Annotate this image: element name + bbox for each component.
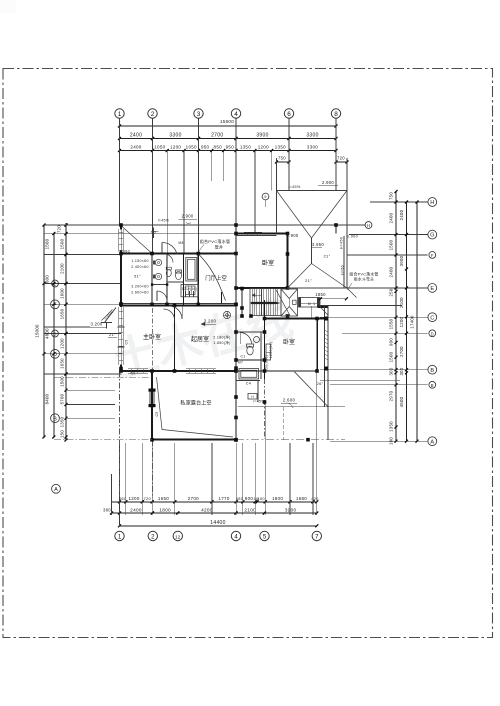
svg-text:1350: 1350 [275, 144, 286, 149]
svg-text:2100: 2100 [244, 507, 256, 512]
svg-text:B: B [431, 383, 434, 388]
svg-text:2: 2 [151, 111, 155, 118]
svg-text:1650: 1650 [158, 496, 169, 501]
svg-text:2.600: 2.600 [283, 398, 296, 403]
svg-text:i=45%: i=45% [288, 185, 300, 189]
svg-text:2100: 2100 [60, 263, 65, 274]
svg-text:3300: 3300 [306, 132, 318, 138]
svg-text:750: 750 [389, 192, 394, 200]
svg-text:3300: 3300 [307, 144, 318, 149]
svg-text:1600: 1600 [60, 288, 65, 299]
svg-text:C4: C4 [246, 382, 251, 386]
svg-text:2400: 2400 [130, 144, 141, 149]
svg-text:4200: 4200 [201, 507, 213, 512]
svg-text:1800: 1800 [159, 507, 171, 512]
svg-text:720: 720 [57, 225, 62, 233]
svg-text:2700: 2700 [211, 132, 223, 138]
svg-text:3300: 3300 [169, 132, 181, 138]
svg-text:720: 720 [143, 496, 151, 501]
svg-text:1500: 1500 [389, 239, 394, 250]
svg-text:组合PVC落水管: 组合PVC落水管 [200, 238, 231, 244]
svg-text:卧室: 卧室 [262, 259, 274, 267]
svg-text:750: 750 [278, 156, 286, 161]
svg-text:21°: 21° [305, 278, 312, 283]
svg-text:1: 1 [118, 111, 122, 118]
svg-text:3900: 3900 [285, 507, 297, 512]
svg-text:1050: 1050 [186, 144, 197, 149]
svg-text:起居室: 起居室 [191, 335, 209, 343]
svg-text:900: 900 [245, 496, 254, 501]
svg-text:7: 7 [315, 534, 319, 540]
svg-text:i=45%: i=45% [253, 399, 264, 403]
svg-text:F: F [53, 302, 57, 308]
svg-text:2400: 2400 [130, 507, 142, 512]
svg-text:2400: 2400 [389, 266, 394, 277]
svg-text:2.900: 2.900 [287, 233, 299, 238]
svg-text:卧室: 卧室 [283, 338, 295, 346]
svg-text:14400: 14400 [210, 520, 225, 526]
svg-text:D: D [53, 332, 56, 337]
svg-text:A: A [430, 439, 434, 445]
svg-text:1200: 1200 [170, 144, 181, 149]
svg-text:15000: 15000 [35, 324, 40, 338]
svg-text:主卧室: 主卧室 [143, 333, 161, 341]
svg-text:C1: C1 [240, 355, 245, 359]
svg-text:2700: 2700 [188, 496, 199, 501]
svg-text:950: 950 [201, 144, 210, 149]
svg-text:M7: M7 [238, 361, 243, 365]
svg-text:M−1: M−1 [308, 302, 316, 306]
svg-text:1: 1 [118, 534, 122, 540]
svg-text:1650: 1650 [60, 308, 65, 319]
svg-text:9: 9 [264, 194, 267, 199]
svg-text:2400: 2400 [389, 212, 394, 223]
svg-text:组合PVC落水管: 组合PVC落水管 [349, 272, 378, 277]
svg-text:1500: 1500 [60, 238, 65, 249]
svg-text:1770: 1770 [218, 496, 229, 501]
svg-text:4: 4 [234, 111, 238, 118]
svg-text:1.900: 1.900 [347, 235, 358, 239]
svg-text:850: 850 [214, 144, 223, 149]
svg-text:3900: 3900 [256, 132, 268, 138]
svg-text:600: 600 [45, 275, 50, 283]
svg-text:i=45%: i=45% [158, 219, 170, 223]
svg-text:2.400×60: 2.400×60 [131, 265, 149, 269]
svg-text:C9: C9 [130, 372, 135, 376]
svg-text:C: C [430, 315, 434, 321]
svg-text:2.900: 2.900 [322, 180, 334, 185]
svg-text:1650: 1650 [60, 358, 65, 369]
svg-text:1.850(净): 1.850(净) [213, 340, 230, 345]
svg-text:H: H [367, 223, 370, 228]
svg-text:720: 720 [337, 156, 345, 161]
svg-text:12: 12 [175, 534, 181, 539]
svg-text:6: 6 [287, 111, 291, 118]
svg-text:4800: 4800 [45, 328, 50, 339]
svg-text:150: 150 [60, 430, 65, 438]
svg-text:15600: 15600 [220, 119, 234, 124]
svg-text:D: D [53, 352, 57, 358]
svg-text:2.900: 2.900 [182, 214, 194, 219]
svg-text:8400: 8400 [45, 393, 50, 404]
svg-text:5: 5 [263, 534, 267, 540]
svg-text:B: B [53, 416, 57, 422]
svg-text:1350: 1350 [60, 416, 65, 427]
svg-text:私家露台上空: 私家露台上空 [180, 398, 211, 406]
svg-text:A: A [54, 487, 58, 493]
svg-text:21°: 21° [324, 254, 331, 259]
svg-text:5700: 5700 [60, 393, 65, 404]
svg-text:雨水斗弯头: 雨水斗弯头 [354, 277, 374, 282]
svg-text:1200: 1200 [399, 316, 404, 327]
svg-text:2: 2 [151, 534, 155, 540]
svg-text:1050: 1050 [154, 144, 165, 149]
svg-text:1800: 1800 [272, 496, 283, 501]
svg-text:1.150×60: 1.150×60 [131, 259, 149, 263]
svg-text:51°: 51° [134, 275, 141, 279]
svg-text:管井: 管井 [215, 244, 224, 250]
svg-text:4500: 4500 [399, 396, 404, 407]
svg-text:2100: 2100 [399, 297, 404, 308]
svg-text:250: 250 [389, 288, 394, 296]
svg-text:180: 180 [389, 437, 394, 445]
svg-text:C5: C5 [125, 340, 129, 345]
svg-text:4: 4 [234, 534, 238, 540]
svg-text:1200: 1200 [128, 496, 139, 501]
svg-text:2400: 2400 [130, 132, 142, 138]
svg-text:1500: 1500 [389, 351, 394, 362]
svg-text:E: E [430, 286, 434, 292]
svg-text:900: 900 [389, 338, 394, 346]
svg-text:380: 380 [103, 507, 111, 512]
svg-text:M8: M8 [178, 241, 183, 245]
svg-text:B: B [430, 368, 434, 374]
svg-text:3.200: 3.200 [204, 319, 217, 324]
svg-text:1200: 1200 [258, 144, 269, 149]
svg-text:1500: 1500 [45, 238, 50, 249]
svg-text:D: D [431, 331, 434, 336]
svg-text:1200: 1200 [60, 338, 65, 349]
svg-text:1550: 1550 [389, 318, 394, 329]
svg-text:17400: 17400 [410, 315, 415, 329]
svg-text:2400: 2400 [399, 209, 404, 220]
svg-text:G: G [430, 233, 434, 239]
svg-text:2.600×60: 2.600×60 [131, 291, 149, 295]
svg-text:E: E [53, 282, 56, 287]
svg-text:300: 300 [389, 367, 394, 375]
svg-text:300: 300 [399, 367, 404, 375]
svg-text:1680: 1680 [296, 496, 307, 501]
svg-text:H: H [251, 395, 254, 399]
svg-text:8: 8 [334, 111, 338, 118]
svg-text:C9: C9 [155, 411, 159, 416]
svg-text:1350: 1350 [389, 421, 394, 432]
svg-text:H=450: H=450 [340, 237, 344, 249]
svg-text:H: H [430, 200, 434, 206]
svg-text:3900: 3900 [399, 255, 404, 266]
svg-text:1850: 1850 [315, 292, 326, 297]
svg-text:3.950: 3.950 [312, 242, 324, 247]
svg-text:21°: 21° [109, 333, 116, 337]
svg-text:3.200×60: 3.200×60 [131, 285, 149, 289]
svg-text:26°: 26° [317, 382, 324, 386]
svg-text:2.180(净): 2.180(净) [213, 335, 230, 340]
svg-text:2970: 2970 [389, 390, 394, 401]
svg-text:1350: 1350 [240, 144, 251, 149]
svg-text:950: 950 [226, 144, 235, 149]
svg-text:F: F [431, 253, 434, 258]
svg-text:3: 3 [197, 111, 201, 118]
svg-text:2700: 2700 [399, 346, 404, 357]
svg-text:i=45%: i=45% [104, 310, 114, 320]
